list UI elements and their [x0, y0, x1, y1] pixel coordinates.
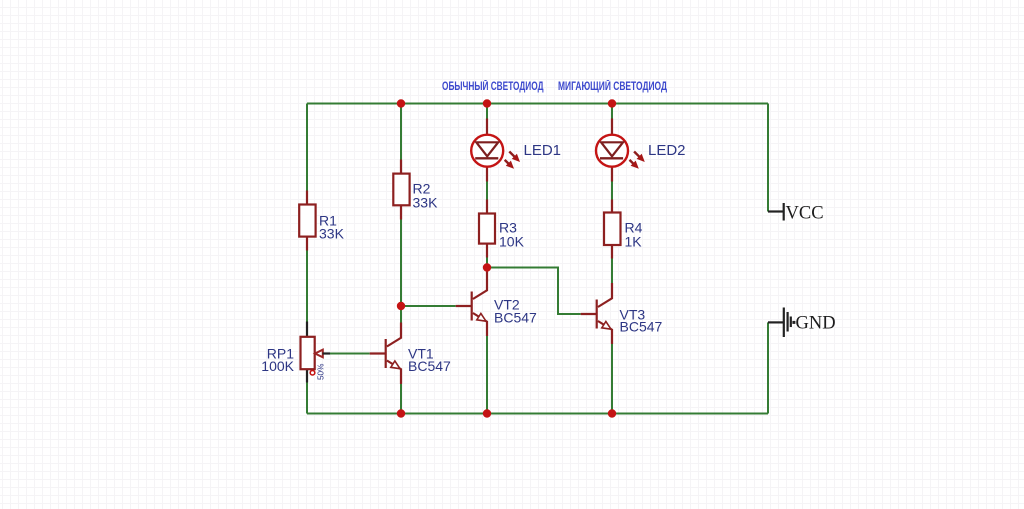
wire VT1 emitter drop — [400, 384, 402, 414]
wire VT2 emitter drop — [486, 336, 488, 414]
potentiometer RP1 — [261, 322, 330, 383]
LED LED2 — [596, 119, 686, 182]
resistor R2 — [393, 160, 438, 220]
junction node A (VT1 collector / VT2 base) — [397, 302, 405, 310]
svg-text:GND: GND — [796, 314, 836, 334]
wire VCC drop — [767, 104, 769, 212]
transistor VT3 — [581, 283, 663, 344]
svg-text:VCC: VCC — [786, 204, 824, 224]
wire GND drop — [767, 322, 769, 413]
svg-text:100K: 100K — [261, 358, 294, 374]
svg-text:50%: 50% — [317, 364, 326, 380]
junction node top LED1 — [483, 99, 491, 107]
junction node top LED2 — [608, 99, 616, 107]
LED LED1 — [471, 119, 561, 182]
wire bottom bus — [307, 413, 768, 415]
wire R3 to node B — [486, 258, 488, 268]
wire LED1 to R3 — [486, 182, 488, 200]
svg-text:LED2: LED2 — [648, 142, 686, 159]
junction node B (VT2 collector / VT3 base) — [483, 263, 491, 271]
svg-text:BC547: BC547 — [494, 310, 537, 326]
svg-text:BC547: BC547 — [408, 358, 451, 374]
junction node bottom VT2 — [483, 409, 491, 417]
resistor R3 — [479, 200, 525, 258]
wire LED1 feed — [486, 104, 488, 119]
svg-text:ОБЫЧНЫЙ СВЕТОДИОД: ОБЫЧНЫЙ СВЕТОДИОД — [442, 80, 544, 93]
resistor R4 — [604, 200, 643, 259]
transistor VT2 — [456, 268, 537, 337]
power VCC — [768, 203, 824, 224]
wire LED2 feed — [611, 104, 613, 119]
wire node A to VT2 base — [401, 305, 456, 307]
wire VT3 emitter drop — [611, 344, 613, 414]
svg-text:LED1: LED1 — [524, 142, 562, 159]
junction node top R2 — [397, 99, 405, 107]
svg-text:10K: 10K — [499, 234, 525, 250]
wire node B to VT3 base — [487, 268, 581, 315]
wire R2 to node A — [400, 220, 402, 323]
wire R2 top feed — [400, 104, 402, 160]
svg-text:33K: 33K — [319, 226, 345, 242]
wire R4 to VT3 collector — [611, 259, 613, 284]
svg-text:BC547: BC547 — [620, 319, 663, 335]
transistor VT1 — [370, 323, 451, 385]
wire top bus — [307, 103, 768, 105]
wire left column middle — [306, 251, 308, 322]
ground GND — [768, 308, 836, 338]
junction node bottom VT1 — [397, 409, 405, 417]
wire LED2 to R4 — [611, 182, 613, 200]
svg-text:33K: 33K — [413, 195, 439, 211]
wire left column lower — [306, 383, 308, 414]
wire VT1 base — [330, 353, 370, 355]
junction node bottom VT3 — [608, 409, 616, 417]
svg-text:1K: 1K — [625, 234, 643, 250]
svg-text:МИГАЮЩИЙ СВЕТОДИОД: МИГАЮЩИЙ СВЕТОДИОД — [558, 80, 667, 93]
wire left column upper — [306, 104, 308, 191]
resistor R1 — [299, 191, 344, 251]
